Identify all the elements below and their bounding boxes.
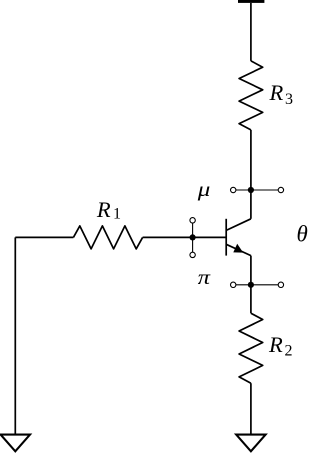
wire base port vertical xyxy=(192,220,194,255)
svg-text:1: 1 xyxy=(113,205,121,222)
svg-text:R: R xyxy=(269,80,284,105)
open terminal pi right xyxy=(278,282,283,287)
resistor R3 xyxy=(239,61,263,130)
svg-text:3: 3 xyxy=(285,91,293,108)
transistor Q1 (NPN) xyxy=(226,219,251,256)
ground (right) xyxy=(236,435,265,452)
open terminal base bottom xyxy=(190,252,195,257)
wire rail to R3 xyxy=(250,3,252,61)
svg-text:θ: θ xyxy=(297,222,308,247)
svg-text:R: R xyxy=(96,197,111,222)
label R1 xyxy=(96,197,121,223)
resistor R1 xyxy=(73,226,142,249)
wire R2 to ground xyxy=(250,383,252,434)
label R2 xyxy=(268,332,293,359)
wire mu port horizontal xyxy=(233,189,281,191)
svg-text:R: R xyxy=(268,332,283,357)
svg-text:2: 2 xyxy=(285,343,293,360)
open terminal mu left xyxy=(231,187,236,192)
resistor R2 xyxy=(239,313,263,383)
svg-text:π: π xyxy=(198,266,211,288)
wire node pi to R2 xyxy=(250,285,252,313)
wire node mu to collector xyxy=(250,190,252,219)
open terminal base top xyxy=(190,218,195,223)
junction dot node pi xyxy=(248,282,254,288)
label R3 xyxy=(269,80,294,108)
wire emitter to node pi xyxy=(250,256,252,285)
svg-text:μ: μ xyxy=(197,179,211,201)
ground (left) xyxy=(1,435,30,452)
open terminal mu right xyxy=(278,187,283,192)
power supply rail (Vcc bar) xyxy=(238,0,264,3)
wire pi port horizontal xyxy=(233,284,281,286)
junction dot base node xyxy=(190,234,196,240)
junction dot node mu xyxy=(248,187,254,193)
wire R1 to left corner xyxy=(15,236,73,238)
open terminal pi left xyxy=(231,282,236,287)
wire left vertical xyxy=(14,237,16,434)
wire R3 to node mu xyxy=(250,130,252,190)
wire base to R1 xyxy=(143,236,227,238)
